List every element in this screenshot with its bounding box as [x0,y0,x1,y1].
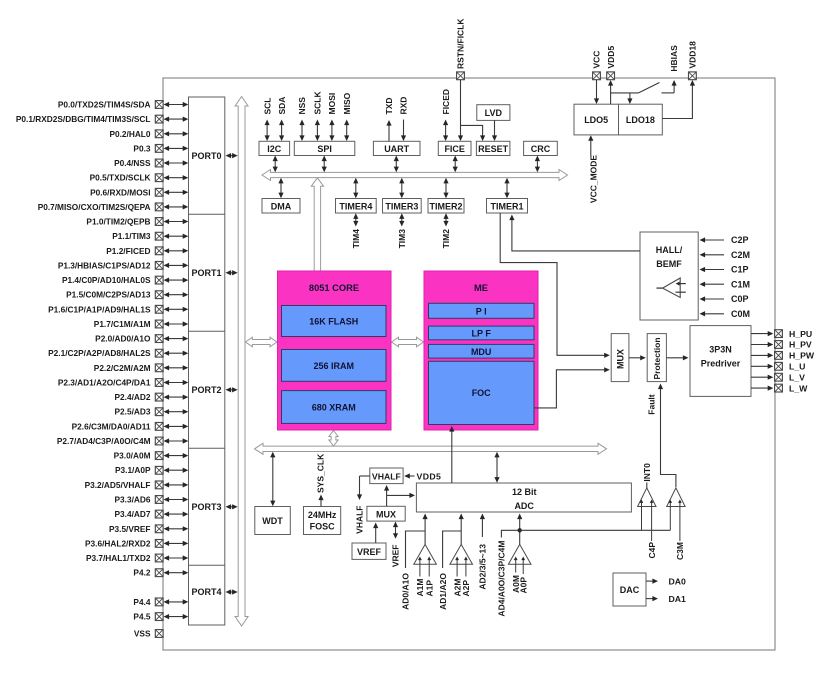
svg-text:C1P: C1P [731,265,749,275]
svg-text:AD0/A1O: AD0/A1O [401,573,411,610]
pin H_PU [751,329,812,339]
wire RSTN to FICE and RESET [458,80,485,142]
svg-text:MDU: MDU [471,347,492,357]
pin P0.1 [16,114,163,124]
wire LVD to RESET [492,120,497,141]
block analog MUX [367,506,405,521]
svg-text:PORT0: PORT0 [191,151,221,161]
svg-text:LDO5: LDO5 [584,115,608,125]
svg-text:VCC: VCC [592,51,602,69]
svg-text:PORT1: PORT1 [191,268,221,278]
signal C0P [700,294,749,304]
wire AD4 line to comparators [520,529,671,531]
svg-text:RXD: RXD [399,97,409,115]
svg-text:P0.3: P0.3 [133,143,150,153]
svg-text:RESET: RESET [478,144,509,154]
svg-text:NSS: NSS [297,97,307,115]
svg-text:DAC: DAC [620,585,640,595]
svg-text:P4.2: P4.2 [133,568,150,578]
upper peripheral bus [262,170,568,181]
signal SCL [262,98,272,142]
wire pin P1.7 to port [164,321,189,326]
block 3P3N Predriver [690,326,751,397]
svg-text:SPI: SPI [317,144,332,154]
svg-text:DA0: DA0 [669,576,687,586]
svg-text:UART: UART [384,144,409,154]
svg-text:P I: P I [476,306,487,316]
svg-text:TIM2: TIM2 [441,229,451,249]
signal Fault [647,384,676,488]
bus to 8051 left arrow [245,337,277,347]
signal TIM4 [351,213,361,248]
block DAC [613,573,646,606]
svg-text:AD1/A2O: AD1/A2O [438,573,448,610]
signal TIM2 [441,213,451,248]
svg-text:MUX: MUX [376,509,396,519]
pin P3.6 [85,538,163,548]
signal DA0 [646,576,686,586]
svg-text:H_PU: H_PU [789,329,812,339]
wire HALL/BEMF to TIMER1 [509,215,640,251]
wire TIMER3 to bus [399,178,404,198]
wire pin P1.5 to port [164,292,189,297]
block LDO18 [619,104,663,135]
wire pin P4.5 to port [164,614,189,619]
svg-text:MISO: MISO [342,92,352,114]
pin VDD5 [606,46,616,80]
svg-text:FOSC: FOSC [310,522,336,532]
signal C2M [700,250,751,260]
wire pin P0.3 to port [164,146,189,151]
wire PORT3 to internal bus [226,504,238,509]
svg-text:680 XRAM: 680 XRAM [312,403,356,413]
wire pin P1.6 to port [164,307,189,312]
chip boundary frame [163,78,775,650]
wire FICE to bus [453,156,458,173]
block TIMER1 [487,199,528,214]
wire pin P0.6 to port [164,190,189,195]
svg-text:P3.1/A0P: P3.1/A0P [115,465,151,475]
svg-text:FOC: FOC [472,388,491,398]
svg-text:P4.5: P4.5 [133,612,150,622]
amplifier A2 [450,544,473,576]
svg-text:P2.7/AD4/C3P/A0O/C4M: P2.7/AD4/C3P/A0O/C4M [57,436,151,446]
wire pin P3.5 to port [164,526,189,531]
wire pin P2.4 to port [164,395,189,400]
block 680 XRAM [282,391,387,424]
pin P2.6 [72,421,163,431]
svg-text:PORT2: PORT2 [191,385,221,395]
wire pin P3.2 to port [164,482,189,487]
svg-text:TXD: TXD [384,98,394,115]
signal MOSI [327,93,337,141]
svg-text:C0M: C0M [731,309,750,319]
pin P1.2 [106,246,163,256]
svg-text:P2.1/C2P/A2P/AD8/HAL2S: P2.1/C2P/A2P/AD8/HAL2S [48,348,151,358]
svg-text:WDT: WDT [262,516,283,526]
signal MISO [342,92,352,141]
svg-text:P0.7/MISO/CXO/TIM2S/QEPA: P0.7/MISO/CXO/TIM2S/QEPA [38,202,151,212]
pin L_V [751,372,805,382]
signal RXD [399,97,409,141]
svg-text:P3.2/AD5/VHALF: P3.2/AD5/VHALF [85,480,151,490]
svg-text:Protection: Protection [652,337,662,379]
svg-text:P0.5/TXD/SCLK: P0.5/TXD/SCLK [90,173,151,183]
wire pin P2.6 to port [164,424,189,429]
svg-text:DMA: DMA [271,201,292,211]
svg-text:VDD5: VDD5 [417,471,442,481]
svg-text:P2.2/C2M/A2M: P2.2/C2M/A2M [94,363,151,373]
wire PORT4 to internal bus [226,589,238,594]
wire pin P3.0 to port [164,453,189,458]
svg-text:P1.4/C0P/AD10/HAL0S: P1.4/C0P/AD10/HAL0S [62,275,151,285]
wire UART to bus [394,156,399,173]
wire pin P1.1 to port [164,234,189,239]
pin H_PW [751,351,815,361]
pin P2.7 [57,436,163,446]
pin P4.5 [133,612,163,622]
pin VDD18 [688,41,698,80]
wire pin P0.7 to port [164,204,189,209]
block LPF [429,326,535,340]
signal SDA [277,97,287,141]
wire LDO18 to VDD18 pin [662,80,695,119]
signal SYS_CLK [316,453,326,506]
pin P3.2 [85,480,164,490]
svg-text:P0.1/RXD2S/DBG/TIM4/TIM3S/SCL: P0.1/RXD2S/DBG/TIM4/TIM3S/SCL [16,114,151,124]
wire FOC to motor MUX [534,367,610,408]
block ME [424,271,538,430]
svg-text:P2.6/C3M/DA0/AD11: P2.6/C3M/DA0/AD11 [72,421,151,431]
pin P1.4 [62,275,163,285]
wire TIMER1 to motor MUX [500,213,610,358]
wire PORT1 to internal bus [226,270,238,275]
pin P1.7 [94,319,163,329]
signal AD4/A0O/C3P/C4M [497,530,520,616]
svg-text:H_PW: H_PW [789,351,815,361]
svg-text:P3.0/A0M: P3.0/A0M [114,451,151,461]
svg-text:SYS_CLK: SYS_CLK [316,453,326,493]
svg-text:FICE: FICE [444,144,465,154]
node junction AD4 line [518,528,522,532]
pin P1.0 [86,217,163,227]
svg-text:AD2/3/5~13: AD2/3/5~13 [478,544,488,590]
svg-text:VDD18: VDD18 [688,41,698,69]
svg-text:LP F: LP F [472,329,492,339]
lower peripheral bus [255,443,607,454]
wire pin P2.0 to port [164,336,189,341]
svg-text:P2.4/AD2: P2.4/AD2 [115,392,151,402]
svg-text:FICED: FICED [441,89,451,115]
block PI [429,303,535,318]
signal C1M [700,279,751,289]
svg-text:C0P: C0P [731,294,749,304]
pin P0.2 [109,129,163,139]
svg-text:TIMER3: TIMER3 [385,201,418,211]
svg-text:P1.6/C1P/A1P/AD9/HAL1S: P1.6/C1P/A1P/AD9/HAL1S [48,304,151,314]
pin P2.2 [94,363,163,373]
pin VCC [592,51,602,80]
block HALL/BEMF [640,232,698,320]
svg-text:P2.5/AD3: P2.5/AD3 [115,407,151,417]
pin H_PV [751,340,812,350]
svg-text:3P3N: 3P3N [709,345,732,355]
8051 to ME arrow [392,337,424,347]
svg-text:P2.0/AD0/A1O: P2.0/AD0/A1O [95,334,151,344]
pin P1.3 [58,260,163,270]
wire pin P2.1 to port [164,351,189,356]
svg-text:VCC_MODE: VCC_MODE [589,155,599,204]
svg-text:ADC: ADC [514,501,534,511]
block WDT [255,507,290,535]
signal TIM3 [397,213,407,248]
svg-text:H_PV: H_PV [789,340,812,350]
svg-text:MOSI: MOSI [327,93,337,115]
svg-text:BEMF: BEMF [656,259,682,269]
wire pin P4.2 to port [164,570,189,575]
signal AD1/A2O [438,531,461,610]
wire pin P3.1 to port [164,468,189,473]
svg-text:P3.3/AD6: P3.3/AD6 [115,495,151,505]
wide bus arrow to 8051 core [311,178,323,271]
wire pin P3.4 to port [164,512,189,517]
wire pin P0.2 to port [164,131,189,136]
svg-text:C3M: C3M [675,542,685,560]
block LDO5 [574,104,619,135]
svg-text:ME: ME [474,283,488,293]
pin P0.5 [90,173,163,183]
pin P3.3 [115,495,164,505]
svg-text:Fault: Fault [647,394,657,414]
svg-text:P1.1/TIM3: P1.1/TIM3 [112,231,151,241]
svg-text:P3.4/AD7: P3.4/AD7 [115,509,151,519]
signal C2P [700,235,749,245]
svg-text:P3.7/HAL1/TXD2: P3.7/HAL1/TXD2 [86,553,151,563]
wire LDO5 to VDD5 pin [608,80,639,104]
signal AD0/A1O [401,531,425,610]
svg-text:256 IRAM: 256 IRAM [313,361,354,371]
wire MUX to Protection [629,355,646,360]
wire MUX to VHALF and ADC [384,485,415,506]
pin P1.1 [112,231,163,241]
comparator symbol in HALL/BEMF [657,278,686,298]
block PORT0-PORT4 column [189,97,225,625]
signal DA1 [646,594,686,604]
wire VREF to MUX [373,523,378,544]
block DMA [262,199,300,214]
svg-text:16K FLASH: 16K FLASH [309,317,358,327]
amplifier A0 [508,544,531,574]
wire VDD5 branch to LDO18 [627,93,632,104]
block CRC [524,141,558,155]
block motor MUX [611,334,629,382]
pin L_W [751,383,808,393]
comparator C3 [667,488,685,541]
svg-text:P1.0/TIM2/QEPB: P1.0/TIM2/QEPB [86,217,150,227]
wire pin P0.4 to port [164,160,189,165]
wire pin P0.5 to port [164,175,189,180]
svg-text:L_U: L_U [789,362,805,372]
svg-text:DA1: DA1 [669,594,687,604]
pin P0.4 [114,158,163,168]
block FICE [438,141,471,155]
signal VHALF out [355,476,370,534]
svg-text:L_V: L_V [789,372,805,382]
wire pin P1.0 to port [164,219,189,224]
pin P3.4 [115,509,164,519]
wire pin P4.4 to port [164,599,189,604]
wire pin P1.4 to port [164,278,189,283]
block MDU [429,344,535,358]
wire pin P0.1 to port [164,117,189,122]
wire pin P2.5 to port [164,409,189,414]
block TIMER2 [428,199,464,214]
block RESET [476,141,510,155]
svg-text:P3.5/VREF: P3.5/VREF [109,524,151,534]
svg-text:P0.0/TXD2S/TIM4S/SDA: P0.0/TXD2S/TIM4S/SDA [58,100,151,110]
svg-text:TIMER2: TIMER2 [429,201,462,211]
svg-text:SCL: SCL [262,98,272,115]
svg-text:C2P: C2P [731,235,749,245]
svg-text:L_W: L_W [789,383,808,393]
block SPI [294,141,355,155]
block 24MHz FOSC [304,507,341,535]
pin P2.0 [95,334,163,344]
pin P3.1 [115,465,163,475]
wire I2C to bus [273,156,278,173]
svg-text:TIMER4: TIMER4 [339,201,372,211]
block VHALF [370,468,403,484]
svg-text:AD4/A0O/C3P/C4M: AD4/A0O/C3P/C4M [497,541,507,617]
svg-text:P1.2/FICED: P1.2/FICED [106,246,150,256]
wire pin P2.3 to port [164,380,189,385]
wire TIMER1 to bus [504,178,509,198]
svg-text:PORT4: PORT4 [191,587,221,597]
svg-text:LVD: LVD [485,108,503,118]
wire switch to HBIAS node [672,80,677,93]
pin P1.6 [48,304,163,314]
wire pin P2.7 to port [164,438,189,443]
svg-text:P1.5/C0M/C2PS/AD13: P1.5/C0M/C2PS/AD13 [66,290,151,300]
wire DMA to bus [278,178,283,198]
pin P0.0 [58,100,163,110]
wire pin P1.3 to port [164,263,189,268]
pin L_U [751,362,805,372]
switch to HBIAS [639,83,675,93]
pin P3.7 [86,553,163,563]
svg-text:P3.6/HAL2/RXD2: P3.6/HAL2/RXD2 [85,538,151,548]
wire pin P2.2 to port [164,365,189,370]
wire ADC to bus [494,452,499,483]
svg-text:C1M: C1M [731,279,750,289]
svg-text:CRC: CRC [531,144,551,154]
wire pin P3.3 to port [164,497,189,502]
signal SCLK [313,91,323,142]
block Protection [647,334,666,382]
svg-text:C4P: C4P [647,542,657,559]
block 256 IRAM [282,350,387,382]
svg-text:MUX: MUX [615,349,625,369]
pin P3.0 [114,451,163,461]
signal VDD5 to VHALF [404,471,441,481]
svg-text:Predriver: Predriver [701,359,741,369]
svg-text:SCLK: SCLK [313,91,323,115]
wire WDT to bus [270,452,275,506]
svg-text:8051 CORE: 8051 CORE [309,283,359,293]
svg-text:C2M: C2M [731,250,750,260]
wire PORT2 to internal bus [226,387,238,392]
block VREF [352,543,386,559]
svg-text:P2.3/AD1/A2O/C4P/DA1: P2.3/AD1/A2O/C4P/DA1 [58,378,151,388]
svg-text:I2C: I2C [267,144,282,154]
block FOC [429,361,535,424]
wire Protection to Predriver [666,355,688,360]
wire TIMER2 to bus [443,178,448,198]
pin P0.3 [133,143,163,153]
comparator C4 INT0 [638,483,656,542]
svg-text:P1.7/C1M/A1M: P1.7/C1M/A1M [94,319,151,329]
block 16K FLASH [282,306,387,337]
signal C0M [700,309,751,319]
svg-text:12 Bit: 12 Bit [512,487,537,497]
signal VCC_MODE [588,135,598,203]
svg-text:VREF: VREF [357,547,382,557]
signal FICED [441,89,451,141]
wire pin P3.6 to port [164,541,189,546]
svg-text:VHALF: VHALF [355,506,365,534]
wire pin P0.0 to port [164,102,189,107]
pin P2.3 [58,378,163,388]
wire A1 to ADC [423,514,428,545]
svg-text:TIMER1: TIMER1 [490,201,523,211]
block UART [373,141,420,155]
8051 bottom to lower bus arrow [329,431,338,447]
pin VSS [134,629,163,639]
signal VREF external [391,522,401,568]
svg-text:SDA: SDA [277,97,287,115]
svg-text:INT0: INT0 [642,463,652,482]
block LVD [477,105,510,121]
svg-text:HALL/: HALL/ [656,245,683,255]
svg-text:VDD5: VDD5 [606,46,616,69]
pin P1.5 [66,290,163,300]
block I2C [259,141,290,155]
wire pin P1.2 to port [164,248,189,253]
svg-text:LDO18: LDO18 [626,115,655,125]
svg-text:VHALF: VHALF [372,472,401,482]
signal NSS [297,97,307,141]
svg-text:PORT3: PORT3 [191,502,221,512]
wire pin P3.7 to port [164,555,189,560]
signal AD2/3/5~13 [478,514,488,590]
svg-text:A1P: A1P [424,580,434,597]
wire SPI to bus [322,156,327,173]
wire VCC to LDO5 [594,80,599,105]
pin RSTN/FICLK [456,18,466,80]
svg-text:TIM3: TIM3 [397,229,407,249]
block 8051 CORE [278,271,392,430]
wire TIMER4 to bus [353,178,358,198]
block TIMER4 [336,199,377,214]
wire PORT0 to internal bus [226,153,238,158]
pin P0.6 [90,187,163,197]
pin P2.4 [115,392,164,402]
amplifier A1 [414,544,437,576]
svg-text:VREF: VREF [391,545,401,568]
svg-text:P0.6/RXD/MOSI: P0.6/RXD/MOSI [90,187,150,197]
pin P0.7 [38,202,163,212]
wire A0 to ADC [517,514,522,545]
